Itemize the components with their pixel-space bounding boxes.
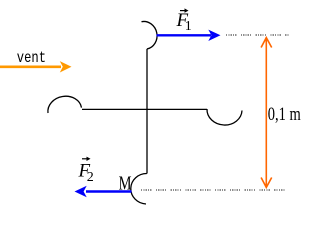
- label F1 (vector): [176, 8, 192, 34]
- svg-text:0,1 m: 0,1 m: [268, 103, 301, 124]
- svg-text:2: 2: [87, 170, 94, 185]
- wind arrow (orange): [0, 66, 61, 69]
- wire horizontal arm of rotor: [82, 108, 207, 110]
- top cup (opens left): [142, 21, 158, 49]
- force arrow F1 (blue): [157, 34, 212, 36]
- svg-text:vent: vent: [17, 49, 46, 67]
- left cup (opens down): [48, 96, 82, 113]
- label F2 (vector): [78, 157, 94, 186]
- bottom dotted reference line: [141, 189, 285, 191]
- svg-text:M: M: [119, 171, 132, 194]
- top dotted reference line: [226, 34, 289, 36]
- dimension arrow 0,1 m (orange, double headed): [265, 39, 267, 187]
- force arrow F2 (blue): [86, 190, 132, 192]
- wire vertical pole of rotor: [146, 49, 148, 174]
- right cup (opens up): [207, 109, 242, 125]
- bottom cup (opens right): [131, 173, 147, 204]
- svg-text:1: 1: [185, 19, 192, 34]
